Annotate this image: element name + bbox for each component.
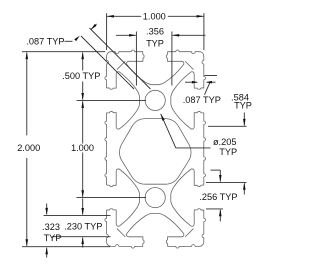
arrow .087R right bbox=[206, 81, 212, 84]
dim .584 lower arrow line bbox=[243, 183, 245, 194]
ext line top face left bbox=[22, 51, 105, 53]
dim .087 leader bbox=[65, 40, 73, 42]
arrow .584 top bbox=[243, 119, 246, 126]
svg-text:TYP: TYP bbox=[44, 233, 62, 243]
dim .087 ext line B bbox=[90, 28, 151, 89]
svg-text:.500 TYP: .500 TYP bbox=[62, 71, 100, 81]
dim .087 right leader bbox=[205, 82, 211, 95]
ext line slot wall left bbox=[135, 32, 137, 86]
dim .087 right arrow line left bbox=[185, 81, 197, 83]
ext line hole bottom bbox=[77, 197, 147, 199]
ext line wing right bbox=[208, 125, 247, 127]
dim 1.000 width line left bbox=[107, 15, 141, 17]
arrow .584 bottom bbox=[243, 183, 246, 190]
arrow .323 bottom bbox=[45, 247, 48, 254]
ext line slot wall right bbox=[171, 32, 173, 86]
dim .087 ext line A bbox=[81, 36, 134, 89]
arrow .256 bottom bbox=[219, 209, 222, 216]
arrow 1.000 right bbox=[197, 15, 204, 18]
arrow .230 top bbox=[81, 208, 84, 215]
ext line profile right bbox=[203, 13, 205, 50]
svg-text:1.000: 1.000 bbox=[143, 11, 166, 21]
arrow .256 top bbox=[219, 175, 222, 182]
ext line profile left bbox=[106, 13, 108, 50]
dim .087 upper arrow tail bbox=[91, 24, 97, 30]
arrow .230 bottom bbox=[81, 237, 84, 244]
svg-text:.256 TYP: .256 TYP bbox=[199, 192, 237, 202]
dim .584 upper arrow line bbox=[243, 113, 245, 126]
central cavity bbox=[120, 119, 192, 185]
dim .356 right arrow line bbox=[173, 34, 206, 36]
dim .500 line lower bbox=[82, 82, 84, 100]
arrow 1.000 vert top bbox=[81, 101, 84, 108]
dim .230 lower arrow line bbox=[82, 237, 84, 247]
dim .087 right arrow line right bbox=[207, 81, 216, 83]
svg-text:2.000: 2.000 bbox=[17, 143, 40, 153]
dim 1.000 vert lower bbox=[82, 153, 84, 197]
dim .323 lower arrow line bbox=[46, 248, 48, 258]
ext line boss wall left bbox=[44, 214, 111, 216]
corner web top-right bbox=[185, 62, 193, 70]
dim 1.000 vert upper bbox=[82, 101, 84, 143]
dim .256 lower arrow line bbox=[219, 210, 221, 222]
svg-text:TYP: TYP bbox=[219, 147, 237, 157]
ext line hole top bbox=[77, 99, 147, 101]
ext line slot edge right bbox=[206, 208, 223, 210]
arrow o205 leader bbox=[161, 114, 165, 121]
corner web bottom-left bbox=[117, 229, 125, 237]
corner web top-left bbox=[117, 62, 125, 70]
ext line lip left bbox=[52, 236, 111, 238]
svg-text:TYP: TYP bbox=[146, 38, 164, 48]
ext line web right bbox=[205, 75, 218, 77]
svg-text:.356: .356 bbox=[146, 27, 164, 37]
arrow .087R left bbox=[192, 81, 198, 84]
corner web bottom-right bbox=[185, 229, 193, 237]
svg-text:.323: .323 bbox=[42, 222, 60, 232]
dim .230 upper arrow line bbox=[82, 198, 84, 214]
arrow 2.000 top bbox=[26, 52, 29, 59]
arrow .087 lower bbox=[74, 36, 80, 42]
arrow .356 right bbox=[172, 34, 179, 37]
dim .323 upper arrow line bbox=[46, 204, 48, 215]
ext line bottom left bbox=[22, 246, 110, 248]
dim .356 left arrow line bbox=[116, 34, 136, 36]
leader o205 diagonal bbox=[161, 114, 176, 148]
arrow .323 top bbox=[45, 208, 48, 215]
arrow 1.000 left bbox=[107, 15, 114, 18]
svg-text:ø.205: ø.205 bbox=[213, 137, 237, 147]
arrow .500 bottom bbox=[81, 93, 84, 100]
svg-text:.087 TYP: .087 TYP bbox=[26, 36, 64, 46]
svg-text:TYP: TYP bbox=[234, 101, 252, 111]
arrow 1.000 vert bottom bbox=[81, 190, 84, 197]
arrow .500 top bbox=[81, 52, 84, 59]
ext line boss wall right bbox=[206, 181, 247, 183]
extrusion outer contour with six T-slot cavities bbox=[105, 50, 206, 248]
svg-text:1.000: 1.000 bbox=[71, 143, 94, 153]
svg-text:.087 TYP: .087 TYP bbox=[183, 95, 221, 105]
arrow 2.000 bottom bbox=[26, 239, 29, 246]
center hole top bbox=[145, 90, 165, 110]
arrow .356 left bbox=[129, 34, 136, 37]
arrow .087 upper bbox=[91, 24, 97, 30]
svg-text:.230 TYP: .230 TYP bbox=[64, 222, 102, 232]
dim .256 upper arrow line bbox=[219, 170, 221, 182]
dim 2.000 line upper bbox=[26, 53, 28, 136]
leader o205 horizontal bbox=[176, 147, 211, 149]
dim 1.000 width line right bbox=[168, 15, 204, 17]
dim 2.000 line lower bbox=[26, 158, 28, 246]
dim .256 jog bbox=[211, 169, 221, 171]
center hole bottom bbox=[145, 188, 165, 208]
dim .500 line upper bbox=[82, 53, 84, 71]
